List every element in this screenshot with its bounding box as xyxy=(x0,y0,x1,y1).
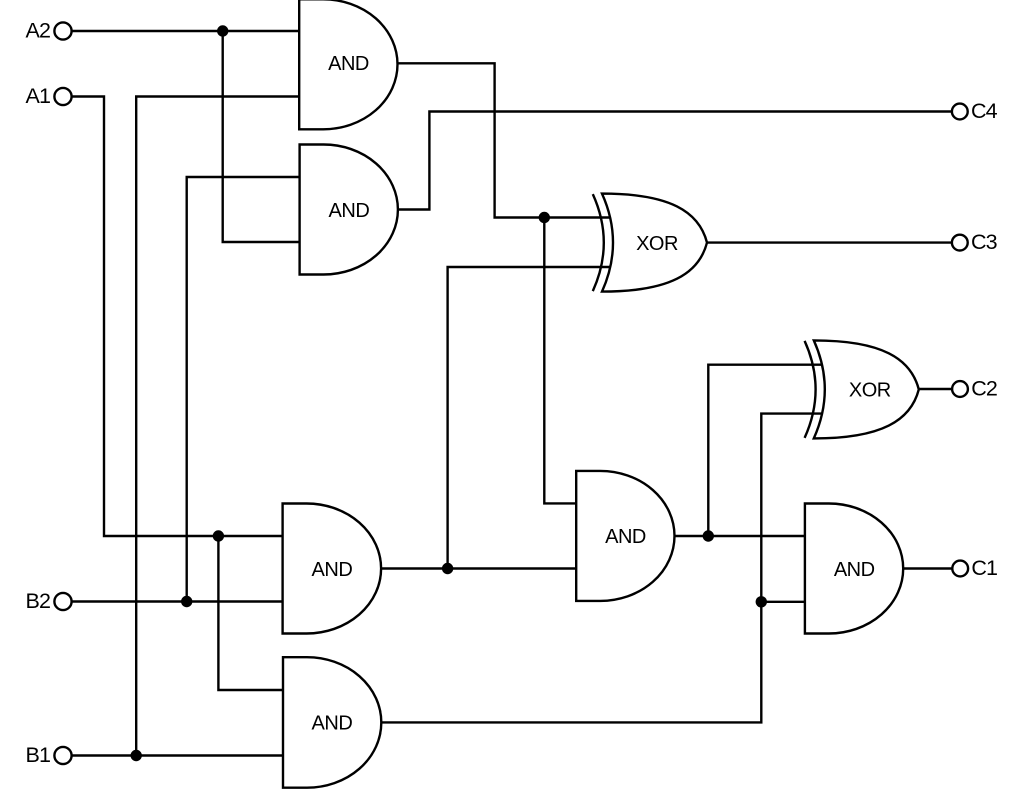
junction dot on A1-AND3 line xyxy=(213,530,224,541)
svg-text:C2: C2 xyxy=(971,376,997,400)
junction dot on AND6 output riser xyxy=(756,596,767,607)
junction dot on B1 line xyxy=(131,750,142,761)
svg-text:AND: AND xyxy=(328,53,369,75)
svg-text:B1: B1 xyxy=(26,743,51,767)
terminal circle C4 xyxy=(952,104,968,120)
and-gate AND3 xyxy=(283,504,382,634)
wire AND1 output down to XOR1 input 1 xyxy=(398,63,611,217)
wire AND5 output to C1 xyxy=(903,567,952,569)
terminal circle A1 xyxy=(54,88,71,105)
svg-text:A1: A1 xyxy=(26,84,51,108)
wire junction A2 down to AND2 input 2 xyxy=(223,31,300,242)
and-gate AND6 (bottom) xyxy=(283,657,381,788)
wire AND3 output to AND4 input 2 xyxy=(381,567,576,569)
terminal circle C2 xyxy=(952,381,968,397)
wire XOR2 output to C2 xyxy=(919,388,952,390)
and-gate AND2 (B2·A1...) xyxy=(300,145,398,275)
terminal circle C1 xyxy=(952,561,968,577)
svg-text:XOR: XOR xyxy=(849,380,891,402)
wire junction to AND5 input 2 xyxy=(761,601,805,603)
wire B1 to AND6 input 2 xyxy=(72,754,283,756)
wire AND2 output up to C4 xyxy=(398,112,952,210)
junction dot on XOR1 input 1 line xyxy=(539,212,550,223)
svg-text:B2: B2 xyxy=(26,589,51,613)
svg-text:AND: AND xyxy=(329,200,370,222)
wire junction down to AND4 input 1 xyxy=(544,218,576,504)
svg-text:C3: C3 xyxy=(971,230,998,254)
wire B1 branch up to AND1 input 2 xyxy=(136,97,299,756)
svg-text:AND: AND xyxy=(312,559,353,581)
xor-gate XOR2 body xyxy=(814,340,919,438)
svg-text:C1: C1 xyxy=(971,556,997,580)
xor-gate XOR2 outer arc xyxy=(805,341,816,438)
svg-text:C4: C4 xyxy=(971,99,998,123)
junction dot on AND3 output line xyxy=(442,563,453,574)
terminal circle A2 xyxy=(54,22,71,39)
junction dot on A2 line xyxy=(217,25,228,36)
wire XOR1 output to C3 xyxy=(707,241,952,243)
junction dot on B2 line xyxy=(181,596,192,607)
terminal circle B1 xyxy=(54,747,71,764)
wire AND4 output to AND5 input 1 xyxy=(675,535,805,537)
svg-text:AND: AND xyxy=(312,713,353,735)
wire AND6 output up to XOR2 input 2 xyxy=(381,414,822,723)
wire B2 branch up to AND2 input 1 xyxy=(187,177,300,602)
xor-gate XOR1 outer arc xyxy=(593,194,604,291)
wire junction up to XOR2 input 1 xyxy=(708,365,822,536)
svg-text:A2: A2 xyxy=(26,18,51,42)
svg-text:AND: AND xyxy=(605,526,646,548)
wire A1 right then down xyxy=(72,97,283,537)
wire junction on A1 line down to AND6 input 1 xyxy=(218,536,283,690)
xor-gate XOR1 body xyxy=(602,194,707,292)
svg-text:XOR: XOR xyxy=(636,233,678,255)
wire junction up to XOR1 input 2 xyxy=(448,267,611,569)
and-gate AND1 (A2·B1) xyxy=(299,0,397,129)
and-gate AND5 (right) xyxy=(805,504,903,634)
junction dot on AND4 output line xyxy=(703,530,714,541)
terminal circle B2 xyxy=(54,593,71,610)
wire A2 to junction and AND1 input 1 xyxy=(72,30,300,32)
terminal circle C3 xyxy=(952,235,968,251)
svg-text:AND: AND xyxy=(834,559,875,581)
wire B2 to AND3 input 2 xyxy=(72,600,283,602)
and-gate AND4 (middle) xyxy=(576,471,674,601)
